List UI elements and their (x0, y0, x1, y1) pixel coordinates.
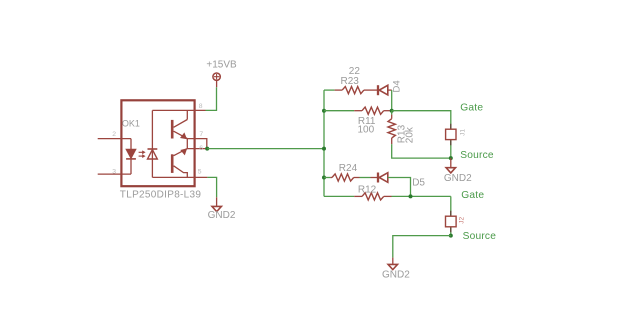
svg-text:R12: R12 (358, 185, 377, 196)
svg-text:OK1: OK1 (122, 119, 140, 129)
svg-text:J1: J1 (460, 129, 467, 136)
inner bottom rail / pin 5 (152, 176, 207, 178)
node R11-D4-R13 (390, 109, 394, 113)
svg-text:J2: J2 (459, 217, 466, 224)
inner top rail / pin 8 (152, 109, 205, 111)
resistor R13 (388, 111, 415, 144)
svg-text:Source: Source (460, 150, 494, 161)
node source1 (449, 156, 453, 160)
svg-text:7: 7 (199, 131, 203, 138)
LED inside OK1 (126, 139, 136, 175)
resistor R12 (354, 185, 391, 200)
svg-text:3: 3 (112, 168, 116, 175)
wire R23 row left (324, 89, 335, 91)
svg-text:100: 100 (358, 125, 375, 136)
resistor R23 (335, 66, 378, 94)
svg-text:6: 6 (199, 145, 203, 152)
photodiode inside OK1 (148, 110, 158, 177)
wire D4 out down to R11 row (391, 90, 393, 111)
svg-text:GND2: GND2 (444, 173, 472, 184)
svg-text:R23: R23 (341, 76, 360, 87)
wire D5 out down to R12 row (388, 178, 411, 197)
resistor R11 (354, 107, 392, 136)
svg-text:GND2: GND2 (208, 210, 236, 221)
svg-text:20k: 20k (404, 126, 415, 143)
node bus-pin6 (322, 147, 326, 151)
svg-text:D5: D5 (412, 177, 425, 188)
resistor R24 (330, 163, 359, 181)
wire R24 to D5 (360, 177, 371, 179)
wire R13 bottom to source row (392, 144, 451, 158)
wire pin5 to GND2 (207, 177, 216, 197)
wire R11 row left (324, 110, 354, 112)
pin 2 stub (98, 131, 131, 138)
wire net +15VB to pin 8 (206, 87, 217, 110)
junction pin 6 (205, 147, 209, 151)
wire vertical bus (323, 90, 325, 196)
op-amp U1 : optocoupler OK1 box (120, 100, 202, 200)
svg-text:Gate: Gate (461, 190, 484, 201)
pin 3 stub (98, 168, 131, 175)
wire R12 to gate2 (392, 195, 451, 197)
svg-text:D4: D4 (392, 80, 403, 92)
node source2 (449, 234, 453, 238)
wire R12 row left (324, 195, 354, 197)
ground GND2 (source2) (382, 258, 410, 281)
ground GND2 (under OK1) (208, 197, 236, 221)
svg-text:+15VB: +15VB (206, 60, 237, 71)
svg-text:Source: Source (463, 231, 497, 242)
svg-text:R24: R24 (339, 163, 358, 174)
ground GND2 (source1) (444, 158, 472, 184)
wire gate2 down to J2 (450, 196, 452, 216)
connector J2 (446, 211, 466, 236)
diode D4 (378, 80, 403, 95)
wire R24 row left (324, 177, 330, 179)
node bus-R11 (322, 109, 326, 113)
transistor Q2 (bottom) (171, 148, 187, 177)
light arrows (139, 150, 146, 158)
supply +15VB (206, 60, 237, 88)
wire gate1 (392, 111, 451, 130)
svg-text:5: 5 (198, 169, 202, 176)
transistor Q1 (top, NPN) (171, 110, 187, 139)
wire source2 to GND2 (393, 236, 451, 258)
svg-text:2: 2 (112, 131, 116, 138)
pin 7 / pin 6 bracket (187, 131, 207, 152)
svg-text:GND2: GND2 (382, 270, 410, 281)
svg-text:TLP250DIP8-L39: TLP250DIP8-L39 (120, 190, 202, 201)
svg-text:8: 8 (199, 103, 203, 110)
node bus-R24 (322, 176, 326, 180)
wire pin6 net to bus (207, 148, 324, 150)
node R12-D5 (409, 194, 413, 198)
connector J1 (446, 124, 467, 158)
svg-text:Gate: Gate (460, 103, 483, 114)
diode D5 (371, 173, 426, 189)
